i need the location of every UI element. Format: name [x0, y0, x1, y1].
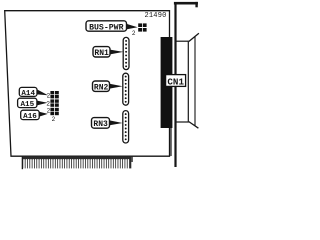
- pin label 2 (below A16 block): [52, 116, 56, 123]
- svg-text:2: 2: [47, 108, 51, 115]
- RN1 callout: [93, 47, 123, 58]
- connector CN1 (black bar): [161, 37, 173, 128]
- jumper block A15: [50, 99, 58, 106]
- svg-text:A14: A14: [21, 90, 35, 98]
- svg-text:2: 2: [46, 100, 50, 107]
- resistor network RN2: [123, 73, 129, 105]
- svg-text:2: 2: [47, 93, 51, 100]
- jumper block A14: [50, 91, 58, 98]
- A14 callout: [19, 87, 48, 97]
- svg-text:2: 2: [52, 116, 56, 123]
- CN1 label: [166, 75, 186, 88]
- pin label 2 (A16): [47, 108, 51, 115]
- svg-text:BUS-PWR: BUS-PWR: [89, 23, 123, 32]
- svg-text:RN3: RN3: [93, 120, 108, 129]
- svg-text:RN2: RN2: [94, 83, 109, 92]
- svg-text:A15: A15: [20, 101, 34, 109]
- jumper JP (bus-pwr): [138, 23, 146, 31]
- external connector (3D view): [176, 33, 199, 128]
- resistor network RN3: [123, 111, 129, 143]
- A16 callout: [21, 110, 48, 121]
- pin label 2 (A14): [47, 93, 51, 100]
- resistor network RN1: [123, 37, 129, 69]
- board outline: [5, 11, 170, 157]
- BUS-PWR callout: [86, 21, 138, 33]
- RN3 callout: [92, 118, 123, 130]
- pin label 2 (A15): [46, 100, 50, 107]
- svg-text:2: 2: [132, 30, 136, 37]
- mounting bracket: [170, 2, 198, 167]
- svg-text:CN1: CN1: [167, 77, 184, 88]
- svg-text:A16: A16: [23, 113, 37, 121]
- svg-text:RN1: RN1: [94, 49, 109, 58]
- jumper block A16: [50, 108, 58, 115]
- svg-text:21490: 21490: [145, 12, 167, 20]
- RN2 callout: [93, 81, 123, 92]
- edge connector fingers: [22, 157, 133, 170]
- pin label 2 (bus-pwr jumper): [132, 30, 136, 37]
- A15 callout: [18, 98, 48, 109]
- figure number 21490: [145, 12, 167, 20]
